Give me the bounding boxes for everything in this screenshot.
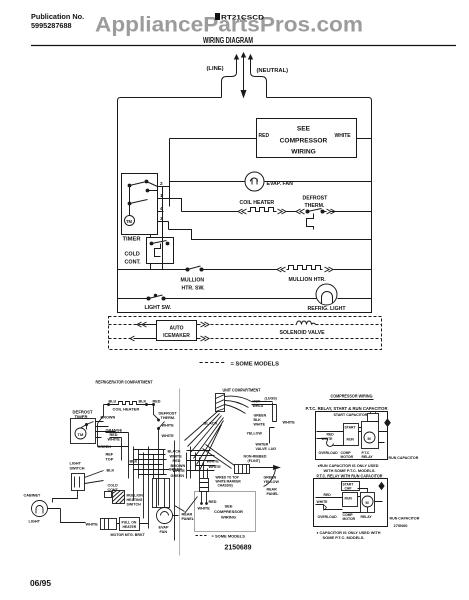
svg-text:RELAY: RELAY [362,455,374,459]
arrows on icemaker wires [137,322,147,327]
svg-text:GREEN: GREEN [264,476,277,480]
svg-text:COLD: COLD [108,484,119,488]
wire step rows right [187,451,216,471]
wire landing vertical 1 [186,453,188,479]
timer motor TM [125,216,135,226]
defrost thermostat contacts [306,209,324,214]
ptc relay box 2 [361,493,375,513]
svg-text:WHITE: WHITE [322,437,334,441]
evap fan row wire [170,181,372,183]
svg-text:TOP: TOP [106,458,114,462]
svg-text:HEATING: HEATING [127,498,143,502]
wire red feed to defrost therm [154,405,159,420]
svg-text:YELLOW: YELLOW [247,432,263,436]
svg-text:MOTOR: MOTOR [343,517,356,521]
some models dashed box [109,317,382,350]
light switch (bottom) label [70,462,85,471]
svg-text:SOLENOID VALVE: SOLENOID VALVE [280,330,326,336]
wires light switch to bundle [85,471,104,484]
compressor motor 1 [364,432,375,443]
label REAR PANEL (left) [182,513,195,522]
svg-text:RELAY: RELAY [361,515,373,519]
wire from terminal area to coil heater row [170,199,182,212]
light switch [147,294,165,300]
labels OVERLOAD COMP MOTOR PTC RELAY box1 [319,451,374,459]
wires in box 1 [317,427,388,446]
wire to rear panel [185,497,198,514]
wire harness vertical 8 [174,441,176,541]
svg-text:(LINE): (LINE) [207,66,224,72]
svg-text:WHITE: WHITE [162,434,175,438]
coil heater top row wire [104,404,154,406]
see compressor wiring box [257,119,357,158]
svg-text:GREEN: GREEN [171,474,185,478]
svg-text:MULLION: MULLION [127,494,144,498]
wire green-yellow drop [264,470,276,487]
ground conductor with arrow [241,63,246,98]
svg-text:WHITE: WHITE [86,523,99,527]
wire defrost therm drop [158,429,160,506]
svg-text:SOME P.T.C. MODELS.: SOME P.T.C. MODELS. [323,536,365,540]
svg-text:2: 2 [160,181,163,187]
svg-text:CHASSIS): CHASSIS) [218,484,233,488]
compressor detail box 2 [314,479,388,527]
coil heater element [248,208,277,212]
svg-text:SWITCH: SWITCH [70,467,85,471]
wire harness vertical 5 [148,447,150,529]
svg-text:(LUGS): (LUGS) [265,397,278,401]
wire yellow drop [270,428,275,444]
svg-text:M: M [368,437,371,441]
svg-text:RED: RED [324,493,332,497]
svg-text:(FLINT): (FLINT) [248,459,261,463]
cabinet light lamp [32,501,48,517]
svg-text:BLACK: BLACK [168,450,182,454]
svg-text:EVAP. FAN: EVAP. FAN [267,181,294,187]
diamond mark [385,419,391,426]
wire step rows left [129,450,170,475]
svg-text:M: M [366,501,369,505]
header rule [31,45,456,47]
svg-text:WHITE: WHITE [170,455,183,459]
bus hop marks [168,222,170,230]
mullion heater arrows [277,267,286,272]
start relay box 2 [343,493,358,507]
label wired to top marker [216,476,242,488]
svg-text:CAP: CAP [345,487,353,491]
defrost timer motor [75,428,86,439]
solenoid valve coil [297,321,316,324]
wire line side of cord [222,65,237,98]
wire harness vertical 1 [128,447,130,479]
svg-text:REAR: REAR [182,513,193,517]
wire cold control to mullion row [150,264,152,270]
label DEFROST THERM. [303,196,329,210]
compartment divider wire [179,389,181,556]
svg-text:MULLION: MULLION [181,278,205,284]
lug wires [252,402,277,422]
start cap label box 2 [342,482,360,491]
note capacitor only used 2 [317,531,381,540]
svg-text:FAN: FAN [160,530,168,534]
svg-text:PANEL: PANEL [267,492,280,496]
coil heater row wire [182,211,238,213]
pull on heater terminal box [101,519,117,530]
wires into compressor box [202,492,207,503]
svg-text:START CAPACITOR: START CAPACITOR [334,413,368,417]
svg-text:OVERLOAD: OVERLOAD [319,451,339,455]
white row wire [110,438,122,461]
coil heater element (bottom diagram) [118,402,138,405]
svg-text:RT21CSCD: RT21CSCD [221,15,264,22]
icemaker feed dashed wire top [109,324,382,326]
refrigerator light lamp [316,284,337,305]
pull on heater box [120,518,140,531]
label AUTO ICEMAKER [163,326,190,340]
svg-text:REF: REF [106,453,114,457]
green row wire [98,446,129,448]
wire orange drop [128,433,130,447]
svg-text:WHITE: WHITE [283,421,296,425]
wire landing vertical 4 [199,458,201,479]
svg-text:CONT.: CONT. [125,260,142,266]
svg-text:MOTOR: MOTOR [341,455,354,459]
defrost timer DT label [73,410,93,420]
svg-text:TM: TM [126,219,133,224]
terminal numbers [160,181,163,222]
svg-text:MULLION HTR.: MULLION HTR. [289,277,327,283]
svg-text:DEFROST: DEFROST [303,196,329,202]
lug feed wires [225,396,252,413]
defrost therm (bottom) label [159,412,178,421]
svg-text:TM: TM [78,432,84,437]
svg-text:RUN CAPACITOR: RUN CAPACITOR [390,517,420,521]
fan motor [157,508,173,524]
svg-text:BLK: BLK [130,460,138,464]
labels box2 [318,513,373,521]
wire harness vertical 3 [138,450,140,479]
chassis connector block [235,465,250,474]
defrost timer box [71,419,96,444]
wire timer to cold control [150,235,152,238]
label SEE COMPRESSOR WIRING [280,126,328,156]
svg-text:WHITE: WHITE [207,460,220,464]
wire from defrost therm to right bus [323,211,372,213]
compressor motor 2 [362,496,373,507]
overload element 2 [324,505,327,511]
fan shroud box [153,479,170,508]
svg-text:WIRING DIAGRAM: WIRING DIAGRAM [203,36,253,45]
svg-text:WHITE: WHITE [317,500,329,504]
svg-text:RED: RED [209,500,217,504]
svg-text:P.T.C. RELAY WITH RUN CAPACITO: P.T.C. RELAY WITH RUN CAPACITOR [317,474,383,479]
svg-text:WHITE: WHITE [335,133,352,139]
svg-text:LIGHT SW.: LIGHT SW. [145,305,172,311]
svg-text:COIL HEATER: COIL HEATER [113,407,140,412]
svg-text:COMPRESSOR: COMPRESSOR [214,509,243,514]
svg-text:RUN CAPACITOR: RUN CAPACITOR [389,456,419,460]
svg-text:= SOME MODELS: = SOME MODELS [212,534,246,539]
svg-text:GREEN: GREEN [169,468,183,472]
svg-text:P.T.C. RELAY, START & RUN CAPA: P.T.C. RELAY, START & RUN CAPACITOR [306,406,388,411]
svg-text:UNIT COMPARTMENT: UNIT COMPARTMENT [223,388,261,393]
wires defrost timer to bundle [96,422,116,438]
legend some models [200,362,227,364]
wires heater [117,523,149,525]
mullion heater switch [186,266,203,271]
svg-text:AUTO: AUTO [169,326,183,332]
svg-text:COLD: COLD [125,252,140,258]
wire cabinet light [48,509,86,523]
svg-text:270N60: 270N60 [394,523,409,528]
svg-text:LIGHT: LIGHT [29,520,41,524]
overload element 1 [327,441,334,447]
svg-text:ICEMAKER: ICEMAKER [163,333,190,339]
top diagram outer box [118,98,372,313]
svg-text:5995287688: 5995287688 [31,21,72,30]
svg-text:2150689: 2150689 [225,543,252,552]
svg-text:OVERLOAD: OVERLOAD [318,515,338,519]
svg-text:PANEL: PANEL [182,517,195,521]
wire landing vertical 3 [195,453,197,471]
wire landing vertical 5 [203,463,205,479]
svg-text:♦ CAPACITOR IS ONLY USED WITH: ♦ CAPACITOR IS ONLY USED WITH [317,531,381,535]
svg-text:HEATER: HEATER [123,525,137,529]
light switch row wire [118,298,372,300]
unit connector plug [216,394,225,412]
svg-text:RED: RED [153,400,161,404]
wire white from compressor box to right bus [357,138,372,140]
compressor detail box 1 [316,412,388,460]
label MULLION HTR. SW. [181,278,206,292]
label COLD CONT. [125,252,142,266]
timer box [122,174,158,235]
wire harness vertical 2 [133,447,135,501]
svg-text:HOT: HOT [253,400,261,404]
wire fan to panel [173,506,185,516]
svg-text:COMPRESSOR: COMPRESSOR [280,138,328,145]
wire blu feed [98,405,104,447]
orange row wire [106,432,129,434]
svg-text:♦RUN CAPACITOR IS ONLY USED: ♦RUN CAPACITOR IS ONLY USED [318,464,379,468]
junction dots top row [108,404,110,406]
svg-text:WHITE: WHITE [254,423,266,427]
svg-text:GREEN: GREEN [98,445,112,449]
diamond mark 2 [379,483,384,490]
bus from terminal 2 down to mullion row [162,187,164,270]
vertical bus from red row to timer [169,139,171,207]
wires in box 2 [316,489,383,513]
mullion heater right arrows [325,267,334,272]
svg-text:GREEN: GREEN [254,414,267,418]
svg-text:WIRING: WIRING [291,149,316,156]
wire harness vertical 4 [143,453,145,519]
see compressor wiring box (bottom) [195,492,256,532]
svg-text:RED: RED [259,133,270,139]
wire bypass row [169,230,372,240]
svg-text:BLK: BLK [107,469,115,473]
svg-text:RUN: RUN [345,497,353,501]
svg-text:THERM.: THERM. [305,203,325,209]
svg-text:BLK: BLK [254,418,262,422]
svg-text:WIRING: WIRING [221,515,236,520]
start relay box 1 [344,424,359,446]
svg-text:ORANGE: ORANGE [106,429,123,433]
svg-text:06/95: 06/95 [30,579,52,588]
header publication number [31,12,84,30]
svg-text:WHITE: WHITE [198,507,211,511]
svg-text:WITH SOME P.T.C. MODELS.: WITH SOME P.T.C. MODELS. [324,469,376,473]
svg-text:HTR. SW.: HTR. SW. [182,286,206,292]
wire red feed to compressor box [170,138,257,140]
svg-text:NON-RIBBED: NON-RIBBED [244,455,267,459]
wire landing vertical 6 [207,469,209,479]
svg-text:WHITE: WHITE [209,465,222,469]
timer terminal stubs [158,187,170,222]
svg-text:BLK: BLK [139,400,147,404]
svg-text:SEE: SEE [224,504,232,509]
svg-text:REFRIGERATOR COMPARTMENT: REFRIGERATOR COMPARTMENT [96,380,153,385]
light switch (bottom) box [72,474,85,491]
compressor terminal connector [200,479,209,492]
defrost timer cam contacts [81,422,94,430]
power cord plug prongs [235,53,253,65]
svg-text:WHLD: WHLD [253,404,264,408]
svg-text:CABINET: CABINET [24,494,42,498]
svg-text:RUN: RUN [347,438,355,442]
svg-text:WHITE: WHITE [162,424,175,428]
svg-text:DEFROST: DEFROST [159,412,178,416]
cold control box [147,238,174,264]
svg-text:= SOME MODELS: = SOME MODELS [231,362,280,368]
svg-text:EVAP: EVAP [159,526,170,530]
harness into chassis connector [203,445,235,469]
cold control contacts [150,241,169,257]
svg-text:RED: RED [327,433,335,437]
wire light switch to cabinet light [53,491,78,503]
note run capacitor only used [318,464,379,473]
svg-text:RED: RED [110,433,118,437]
svg-text:START: START [345,426,357,430]
svg-text:VALVE: VALVE [256,447,268,451]
mullion heating switch hatched body [113,491,125,504]
svg-text:SWITCH: SWITCH [127,503,142,507]
svg-text:LUG: LUG [269,447,277,451]
coil heater arrows left [238,209,247,214]
evap fan motor [245,172,264,191]
svg-text:WATER: WATER [256,443,269,447]
model number [215,13,264,22]
auto icemaker box [157,321,197,341]
defrost therm (bottom) switch [159,422,165,429]
svg-text:SEE: SEE [297,126,311,133]
svg-text:TIMER: TIMER [123,237,142,243]
svg-text:COIL HEATER: COIL HEATER [240,200,275,206]
wire mullion to right bus [334,269,372,271]
start capacitor symbol [368,414,379,422]
wire colour labels right stack [168,450,186,479]
mullion heater element [287,266,323,270]
svg-text:LIGHT: LIGHT [70,462,82,466]
ptc relay box 1 [362,422,379,449]
svg-text:THERM.: THERM. [161,416,176,420]
timer internal contacts [128,180,157,215]
label MULLION HEATING SWITCH [127,494,144,507]
wire landing vertical 2 [190,447,192,479]
legend some models (bottom) [196,535,209,537]
wire harness vertical 7 [163,450,165,475]
svg-text:(NEUTRAL): (NEUTRAL) [257,68,289,74]
svg-text:REAR: REAR [267,488,278,492]
wire to defrost thermostat [287,211,297,213]
defrost therm arrows [296,209,305,214]
icemaker return dashed wire bottom [109,338,382,340]
svg-text:YELLOW: YELLOW [264,480,280,484]
defrost thermostat bypass element [307,214,314,230]
connector fan-out wires [185,412,224,471]
svg-text:WHITE: WHITE [108,438,121,442]
svg-text:PULL ON: PULL ON [122,521,137,525]
wire connector to right with arrow [250,467,275,469]
svg-text:REFRIG. LIGHT: REFRIG. LIGHT [308,306,347,312]
svg-text:Publication No.: Publication No. [31,12,84,21]
svg-text:RED: RED [173,459,181,463]
coil heater arrows right [278,209,287,214]
svg-text:BLU: BLU [109,400,117,404]
svg-text:COMPRESSOR WIRING: COMPRESSOR WIRING [331,394,373,399]
mullion heater switch row wire [118,269,278,271]
wire neutral side of cord [251,65,267,98]
wire harness vertical 6 [153,455,155,479]
svg-text:MOTOR MTG. BRKT: MOTOR MTG. BRKT [111,533,146,537]
